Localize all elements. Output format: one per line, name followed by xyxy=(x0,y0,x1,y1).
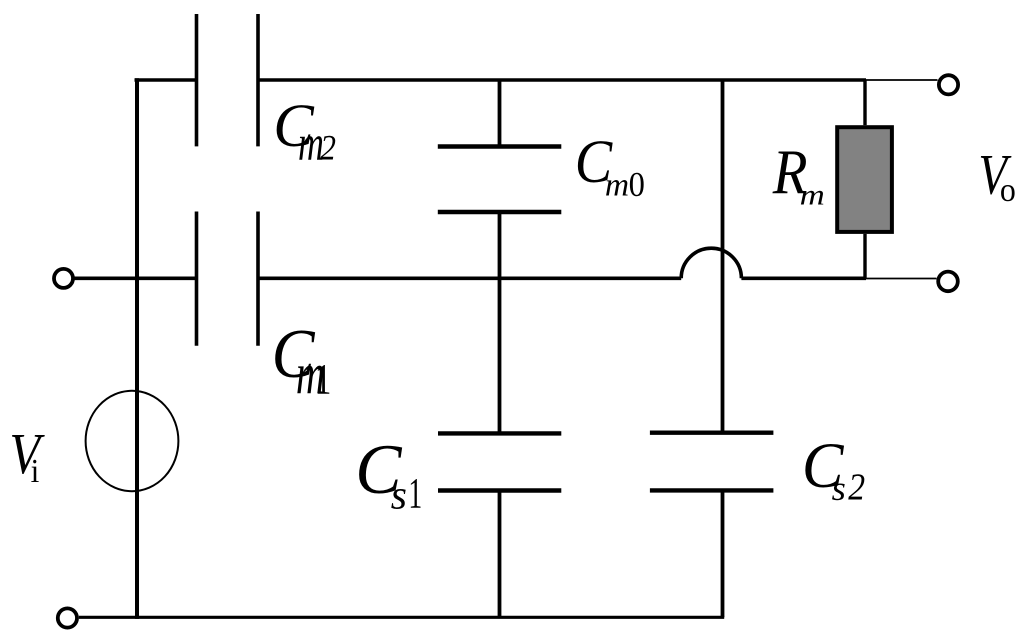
svg-text:m: m xyxy=(800,179,825,212)
svg-text:2: 2 xyxy=(848,466,865,508)
svg-text:0: 0 xyxy=(629,166,645,204)
svg-text:1: 1 xyxy=(315,356,331,403)
svg-text:o: o xyxy=(1000,172,1016,209)
svg-text:m: m xyxy=(605,167,629,204)
svg-text:s: s xyxy=(391,472,407,518)
svg-text:2: 2 xyxy=(320,129,336,168)
svg-text:i: i xyxy=(31,453,40,490)
svg-text:s: s xyxy=(832,468,846,507)
svg-text:1: 1 xyxy=(408,469,422,517)
